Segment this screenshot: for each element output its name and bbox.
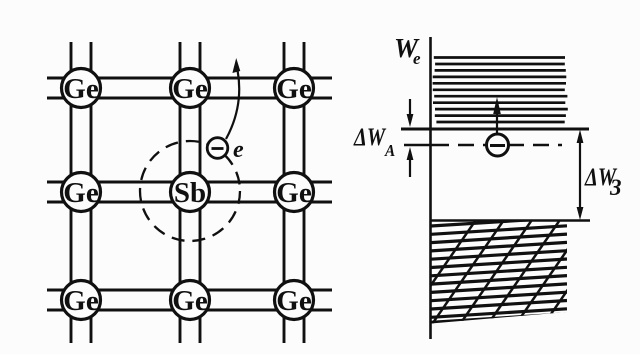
svg-text:Ge: Ge xyxy=(172,73,208,105)
svg-text:3: 3 xyxy=(609,175,622,200)
svg-text:A: A xyxy=(384,142,395,160)
svg-text:Ge: Ge xyxy=(276,73,312,105)
svg-text:Ge: Ge xyxy=(172,285,208,317)
svg-text:Ge: Ge xyxy=(63,285,99,317)
svg-text:Ge: Ge xyxy=(63,73,99,105)
svg-text:Ge: Ge xyxy=(276,285,312,317)
svg-text:Sb: Sb xyxy=(174,177,206,209)
svg-text:Ge: Ge xyxy=(276,177,312,209)
svg-text:Ge: Ge xyxy=(63,177,99,209)
svg-text:e: e xyxy=(233,137,244,163)
svg-text:ΔW: ΔW xyxy=(353,123,386,150)
svg-text:e: e xyxy=(413,49,421,68)
